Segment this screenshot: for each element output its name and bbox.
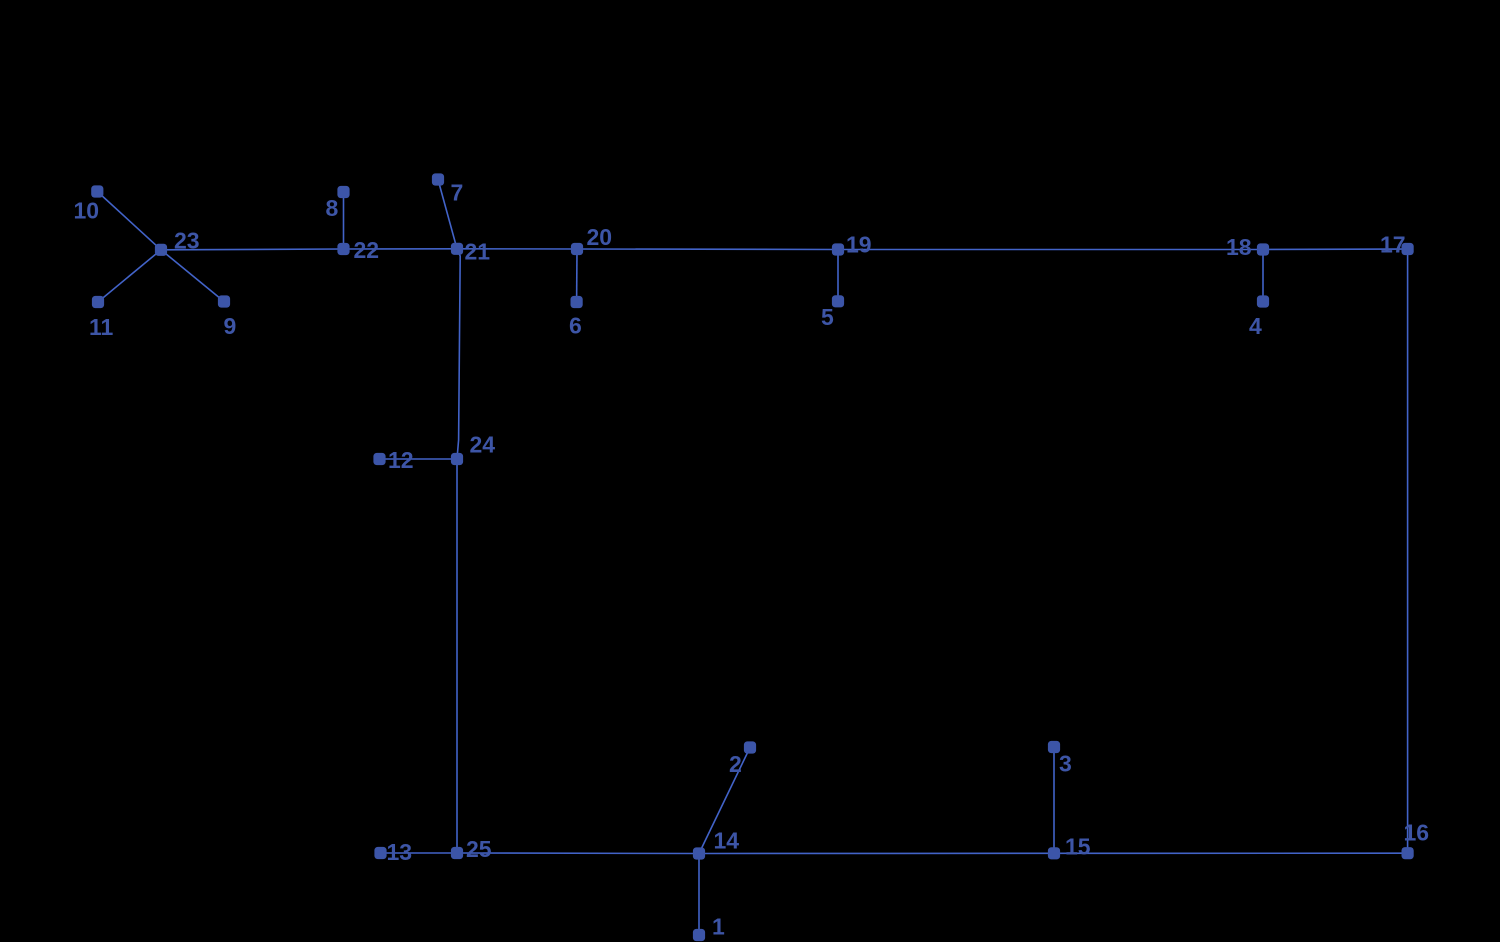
svg-text:20: 20	[587, 224, 613, 250]
wire edge 15-14	[699, 852, 1054, 854]
svg-text:13: 13	[387, 839, 413, 865]
node 13 dot	[374, 847, 386, 859]
svg-text:16: 16	[1404, 820, 1430, 846]
svg-text:15: 15	[1065, 834, 1091, 860]
svg-text:17: 17	[1380, 232, 1406, 258]
wire edge 22-21	[344, 248, 458, 250]
wire edge 15-3	[1053, 747, 1055, 853]
svg-text:6: 6	[569, 313, 582, 339]
svg-text:3: 3	[1059, 751, 1072, 777]
node 9 dot	[218, 295, 230, 307]
wire edge 16-15	[1054, 852, 1408, 854]
svg-text:19: 19	[846, 232, 872, 258]
wire edge 19-18	[838, 249, 1263, 251]
node 3 dot	[1048, 741, 1060, 753]
node 18 dot	[1257, 243, 1269, 255]
wire edge 14-25	[457, 852, 699, 855]
wire edge 21-20	[457, 248, 577, 250]
svg-text:11: 11	[89, 314, 114, 340]
wire edge 14-1	[698, 854, 700, 936]
wire edge 23-22	[161, 248, 344, 251]
svg-text:5: 5	[821, 304, 834, 330]
svg-text:7: 7	[451, 180, 464, 206]
svg-text:12: 12	[388, 447, 414, 473]
node 14 dot	[693, 847, 705, 859]
node 17 dot	[1402, 243, 1414, 255]
node 22 dot	[337, 243, 349, 255]
svg-text:18: 18	[1226, 234, 1252, 260]
node 11 dot	[92, 296, 104, 308]
node 10 dot	[91, 185, 103, 197]
wire edge 23-9	[161, 250, 224, 302]
node 5 dot	[832, 295, 844, 307]
node 7 dot	[432, 173, 444, 185]
svg-text:24: 24	[470, 432, 496, 458]
svg-text:9: 9	[224, 313, 237, 339]
svg-text:14: 14	[714, 828, 740, 854]
node 25 dot	[451, 847, 463, 859]
svg-text:4: 4	[1249, 313, 1262, 339]
wire edge 25-13	[381, 852, 458, 854]
node 8 dot	[337, 186, 349, 198]
node 6 dot	[571, 296, 583, 308]
wire edge 19-5	[837, 250, 839, 302]
node 4 dot	[1257, 295, 1269, 307]
wire edge 21-24	[457, 249, 460, 459]
node 21 dot	[451, 243, 463, 255]
wire edge 17-16	[1407, 249, 1409, 853]
wire edge 23-11	[98, 250, 161, 302]
wire edge 20-19	[577, 248, 838, 251]
node 15 dot	[1048, 847, 1060, 859]
svg-text:1: 1	[712, 914, 725, 940]
svg-text:10: 10	[74, 198, 100, 224]
node 1 dot	[693, 929, 705, 941]
node 23 dot	[155, 244, 167, 256]
wire edge 21-7	[438, 180, 457, 249]
node 20 dot	[571, 243, 583, 255]
svg-text:2: 2	[729, 751, 742, 777]
wire edge 18-17	[1263, 248, 1408, 251]
wire edge 14-2	[699, 748, 750, 854]
wire edge 20-6	[576, 249, 578, 302]
svg-text:22: 22	[354, 237, 380, 263]
svg-text:8: 8	[326, 195, 339, 221]
svg-text:23: 23	[174, 228, 200, 254]
node 2 dot	[744, 741, 756, 753]
node 12 dot	[373, 453, 385, 465]
wire edge 22-8	[343, 192, 345, 249]
wire edge 24-25	[456, 459, 458, 853]
node 24 dot	[451, 453, 463, 465]
svg-text:21: 21	[465, 239, 491, 265]
svg-text:25: 25	[466, 836, 492, 862]
wire edge 24-12	[380, 458, 458, 460]
node 19 dot	[832, 243, 844, 255]
node 16 dot	[1402, 847, 1414, 859]
wire edge 23-10	[97, 192, 161, 250]
wire edge 18-4	[1262, 250, 1264, 302]
